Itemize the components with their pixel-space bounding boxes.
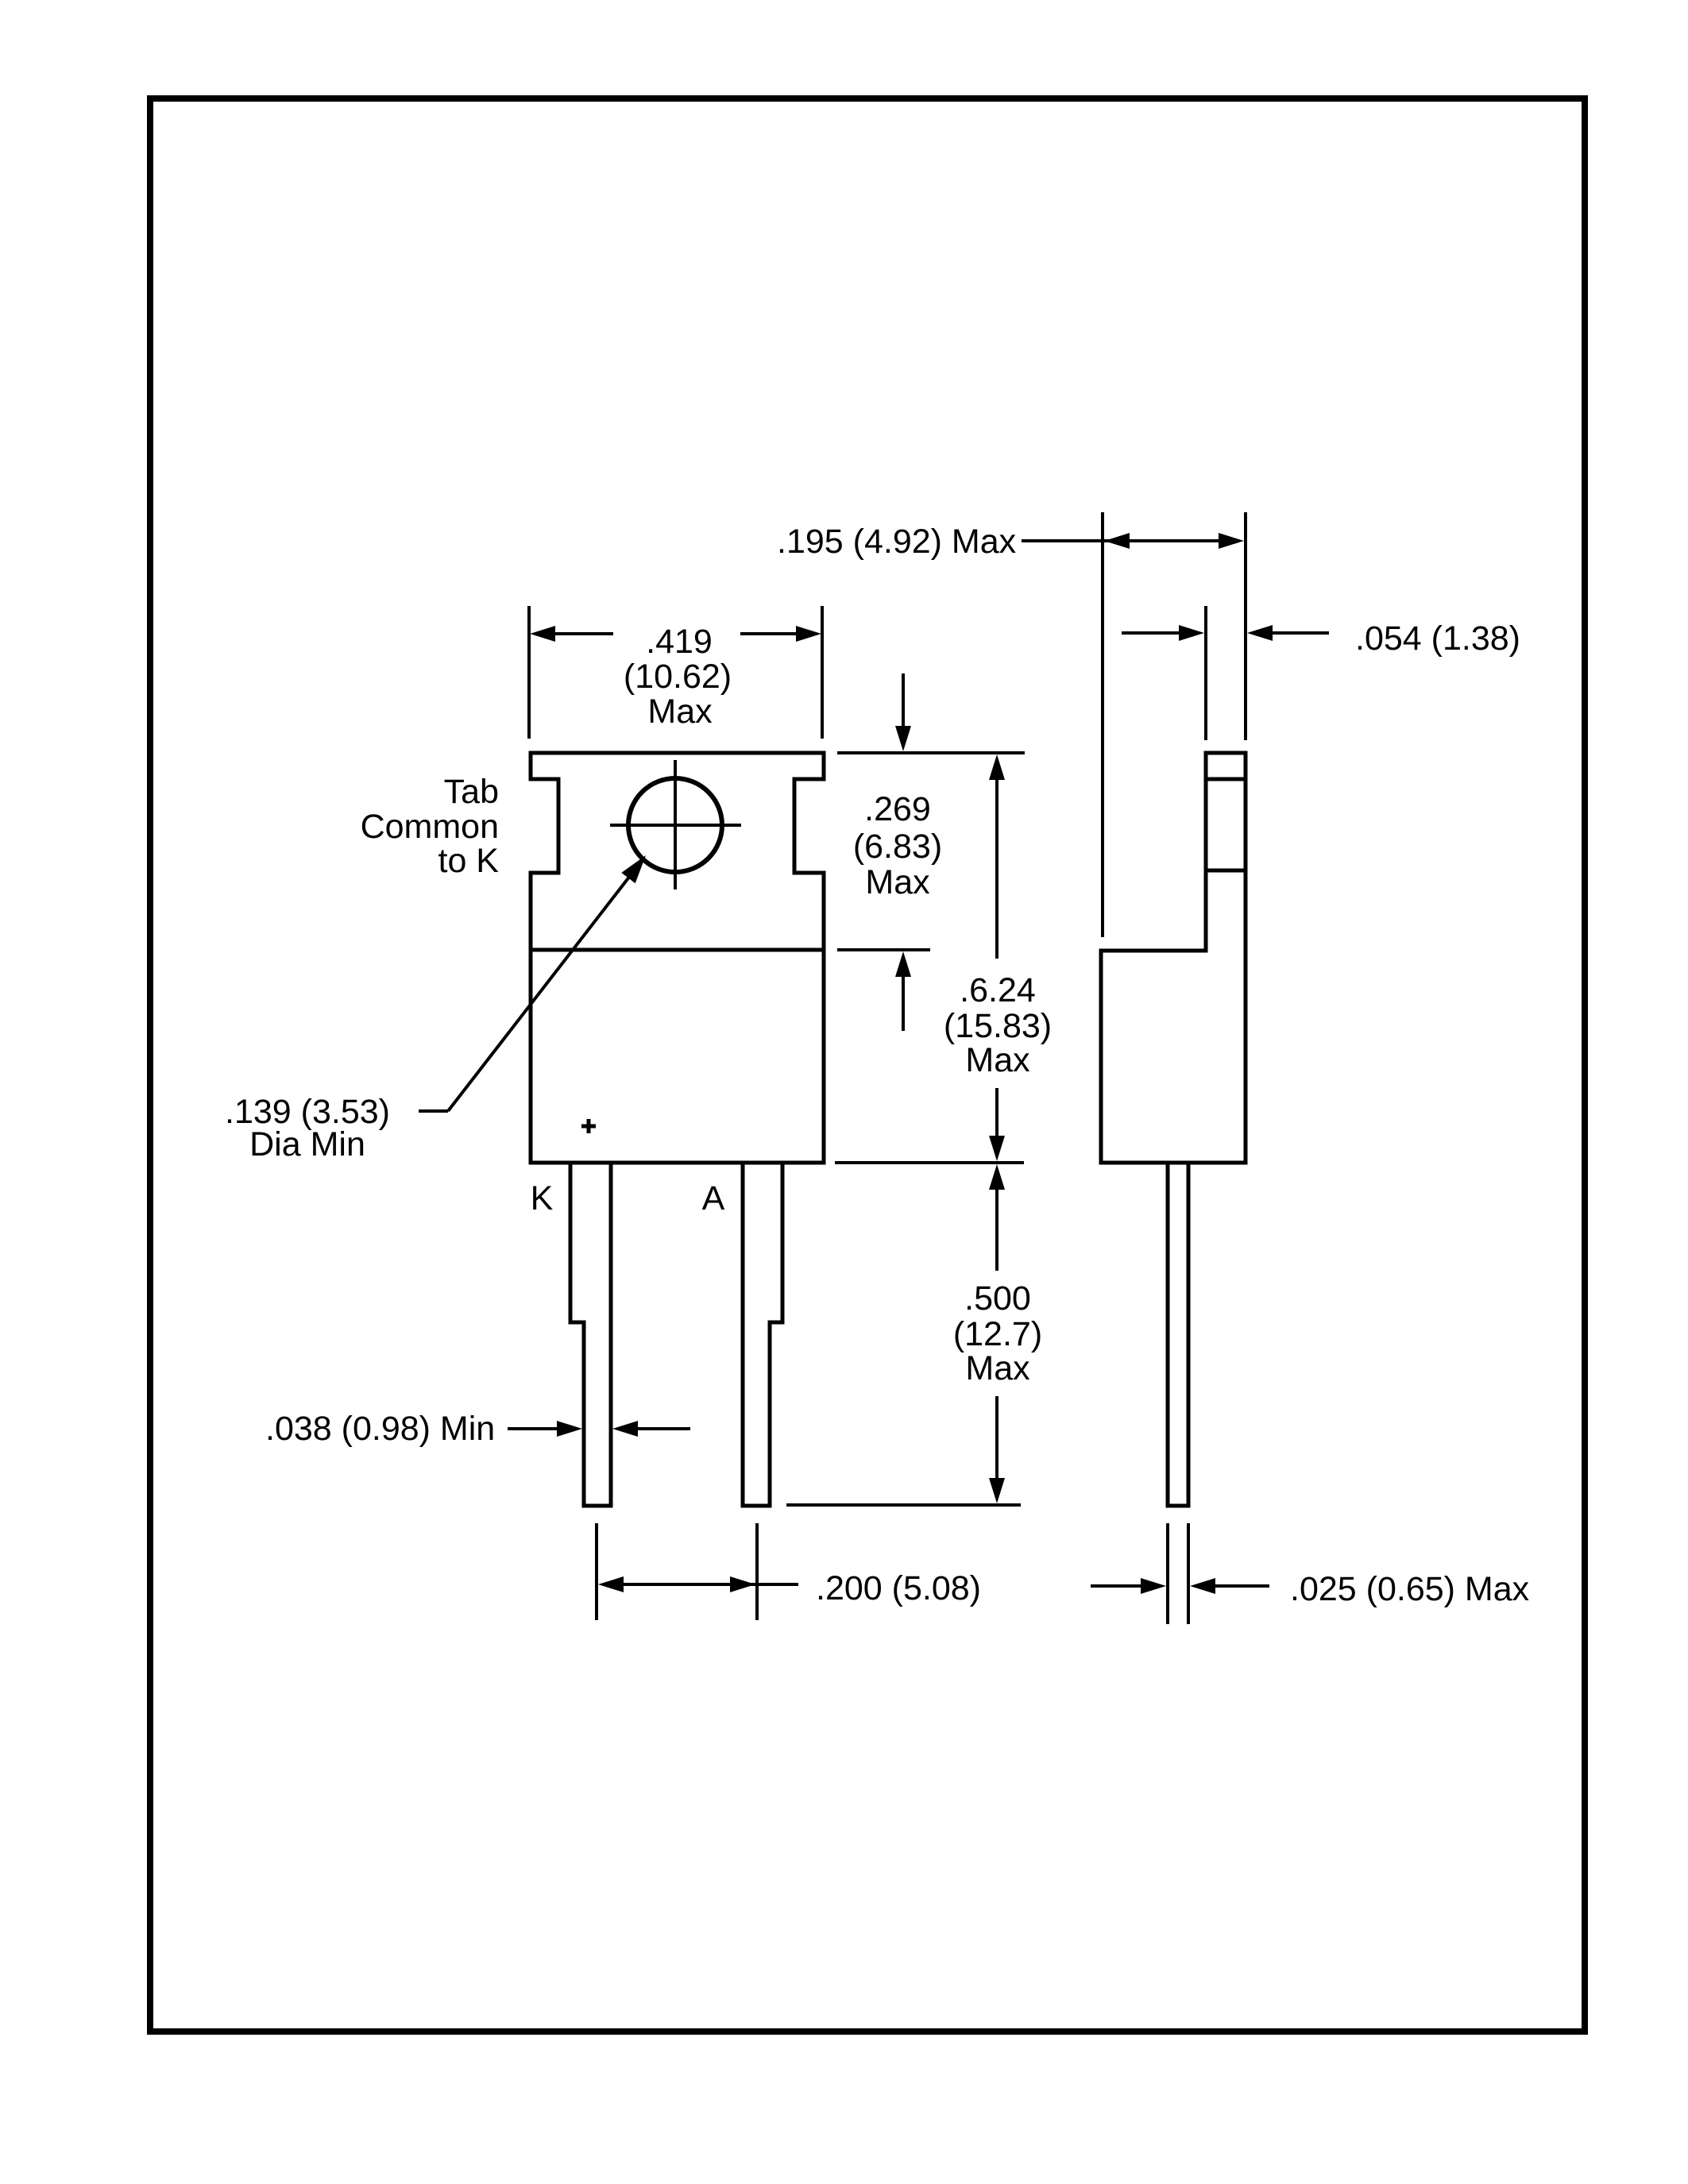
lead A outline bbox=[743, 1163, 782, 1506]
svg-text:K: K bbox=[531, 1179, 554, 1217]
svg-text:.038 (0.98) Min: .038 (0.98) Min bbox=[265, 1410, 495, 1448]
front view tab separation line bbox=[531, 948, 824, 952]
lead bottom reference line bbox=[786, 1503, 1021, 1507]
border frame bbox=[150, 98, 1585, 2032]
dimension .054 arrows bbox=[1122, 625, 1329, 641]
dimension .6.24 text bbox=[944, 971, 1052, 1079]
dimension .025 arrows bbox=[1091, 1578, 1269, 1594]
dimension .500 arrows bbox=[989, 1164, 1005, 1503]
svg-text:.195 (4.92) Max: .195 (4.92) Max bbox=[777, 523, 1017, 561]
svg-text:Max: Max bbox=[965, 1349, 1030, 1387]
dimension .419 arrows bbox=[530, 626, 821, 642]
label Tab Common to K bbox=[361, 773, 500, 880]
svg-text:A: A bbox=[702, 1179, 725, 1217]
dimension .6.24 arrows bbox=[989, 754, 1005, 1161]
side view lead outline bbox=[1168, 1163, 1188, 1506]
hole leader line with arrow bbox=[419, 855, 646, 1111]
dimension .419 text bbox=[624, 623, 732, 731]
label A bbox=[702, 1179, 725, 1217]
dimension .269 arrows bbox=[895, 673, 911, 1031]
svg-text:to K: to K bbox=[438, 842, 500, 880]
dimension .269 text bbox=[853, 790, 942, 901]
lead K outline bbox=[570, 1163, 611, 1506]
polarity plus mark bbox=[581, 1119, 596, 1133]
svg-text:.025 (0.65) Max: .025 (0.65) Max bbox=[1290, 1570, 1530, 1608]
svg-text:(6.83): (6.83) bbox=[853, 828, 942, 866]
svg-text:(12.7): (12.7) bbox=[953, 1315, 1042, 1353]
hole crosshair bbox=[610, 760, 741, 889]
dimension .139 text bbox=[225, 1093, 390, 1163]
svg-text:Max: Max bbox=[965, 1041, 1030, 1079]
svg-text:.500: .500 bbox=[964, 1279, 1031, 1318]
body bottom reference line right of package bbox=[835, 1161, 1024, 1164]
dimension .419 extension lines bbox=[529, 606, 822, 739]
dimension .195 text bbox=[777, 523, 1017, 561]
dimension .025 text bbox=[1290, 1570, 1530, 1608]
svg-text:.200 (5.08): .200 (5.08) bbox=[816, 1569, 981, 1607]
dimension .054 text bbox=[1355, 619, 1520, 658]
svg-text:.419: .419 bbox=[646, 623, 713, 661]
svg-text:.6.24: .6.24 bbox=[960, 971, 1036, 1009]
svg-text:.269: .269 bbox=[864, 790, 931, 828]
label K bbox=[531, 1179, 554, 1217]
dimension .054 extension line bbox=[1204, 606, 1207, 740]
side view body outline bbox=[1101, 753, 1246, 1163]
dimension .195 leader and dim line bbox=[1022, 533, 1244, 549]
svg-text:Max: Max bbox=[865, 863, 930, 901]
dimension .200 text bbox=[816, 1569, 981, 1607]
svg-text:(15.83): (15.83) bbox=[944, 1007, 1052, 1045]
dimension .200 extension lines bbox=[597, 1523, 757, 1620]
svg-text:Tab: Tab bbox=[444, 773, 499, 811]
svg-text:Max: Max bbox=[647, 693, 713, 731]
dimension .200 arrows bbox=[598, 1576, 798, 1592]
mounting hole circle bbox=[628, 778, 722, 872]
dimension .195 extension lines bbox=[1103, 512, 1246, 937]
front view package body outline bbox=[531, 753, 824, 1163]
svg-text:(10.62): (10.62) bbox=[624, 658, 732, 696]
tab bottom reference line right of package bbox=[837, 948, 930, 951]
dimension .500 text bbox=[953, 1279, 1042, 1387]
svg-text:Dia Min: Dia Min bbox=[249, 1125, 365, 1163]
dimension .025 extension lines bbox=[1168, 1523, 1188, 1624]
dimension .038 text bbox=[265, 1410, 495, 1448]
side view hole edge lines bbox=[1206, 779, 1246, 870]
top reference line right of package bbox=[837, 751, 1025, 754]
svg-text:.054 (1.38): .054 (1.38) bbox=[1355, 619, 1520, 658]
dimension .038 arrows bbox=[508, 1421, 690, 1437]
svg-text:Common: Common bbox=[361, 808, 499, 846]
